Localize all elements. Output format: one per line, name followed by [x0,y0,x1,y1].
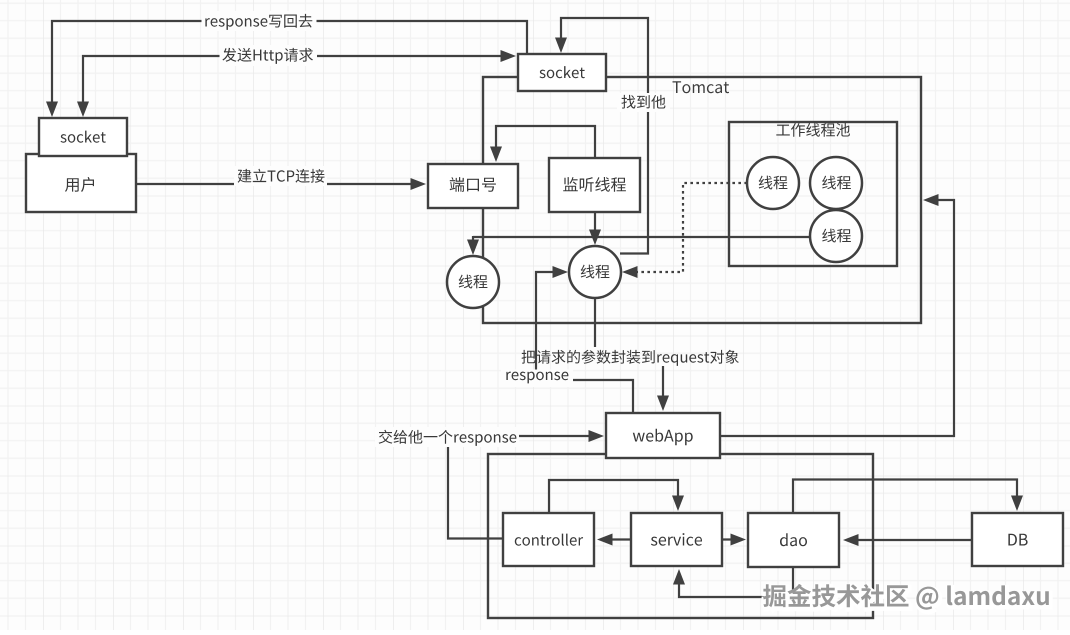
label 工作线程池 [776,123,850,137]
arrowhead into service top [672,496,684,512]
wire give-response label into webApp left [518,435,598,437]
box dao [748,513,839,567]
arrowhead into thread circle B top [589,230,601,246]
wire pool thread 3 to thread circle A junction [473,236,811,238]
label dao [780,533,807,546]
label 线程 pool 2 [822,176,851,190]
label 端口号 [450,177,496,192]
wire webApp right up into Tomcat right edge [720,200,954,436]
label 找到他 [617,93,670,112]
Tomcat container box [483,77,921,323]
wire DB to dao [849,539,972,541]
arrowhead into thread circle A top [467,240,479,256]
webapp inner container box [488,454,873,618]
arrowhead into webApp top [657,396,669,412]
arrowhead find-it into server socket [555,38,567,54]
label controller [515,534,583,546]
arrowhead send http into server socket [501,50,517,62]
wire listening thread down to thread circle B [594,212,596,239]
circle thread A [447,256,499,308]
circle thread B [569,246,621,298]
arrowhead establish TCP into port box [411,178,427,190]
wire controller top to service top [549,480,678,513]
wire find-it: thread circle B up into server socket top [561,18,648,254]
wire response up from label to thread circle B [536,272,562,370]
wire listening thread to port box [496,126,595,158]
label 交给他一个response [375,427,519,447]
wire dao bottom to service bottom [679,567,793,597]
label Tomcat [673,81,730,93]
label 线程 thread circle A [459,275,488,289]
wire establish TCP: user box to port box [137,183,420,185]
label 发送Http请求 [220,45,318,66]
label service [651,533,702,546]
wire thread circle B down to request label [594,298,596,347]
arrowhead into thread circle B left [553,266,569,278]
label 线程 thread circle B [581,265,610,279]
box 端口号 port number [428,164,518,208]
wire pool line junction down to thread circle A [472,236,474,249]
wire service to dao [722,538,740,540]
arrowhead response write-back into user socket [46,102,58,118]
label 线程 pool 3 [822,229,851,243]
arrowhead into dao left [731,534,747,546]
label response [501,370,573,388]
arrowhead into Tomcat right edge [923,194,939,206]
wire send http request: user socket to server socket [83,56,509,112]
arrowhead into service bottom [673,569,685,585]
label 用户 [65,177,94,192]
box service [631,513,722,566]
label 把请求的参数封装到request对象 [522,350,739,366]
wire dao top to DB top [793,480,1017,514]
arrowhead into port box top [490,147,502,163]
arrowhead into DB top [1011,496,1023,512]
wire response label link to webApp top [569,380,633,413]
arrowhead dotted into thread circle B right [622,266,638,278]
dotted wire pool thread 1 to thread circle B [628,183,747,272]
label 线程 pool 1 [759,176,788,190]
box controller [503,513,594,566]
watermark 掘金技术社区 @ lamdaxu [763,584,1050,612]
label 建立TCP连接 [234,166,327,186]
box webApp [606,413,720,458]
circle pool thread 1 [747,157,799,209]
label response写回去 [202,11,317,31]
wire service to controller [603,538,631,540]
circle pool thread 3 [810,210,862,262]
box DB [972,513,1063,566]
box socket (user side) [39,118,127,156]
label socket user side [61,131,106,143]
box 用户 user [26,154,136,212]
arrowhead into webApp left [589,430,605,442]
arrowhead send http into user socket [77,102,89,118]
arrowhead into controller right [597,534,613,546]
arrowhead into dao right [843,534,859,546]
wire request label down into webApp [662,366,664,405]
label socket server side [540,66,585,78]
worker thread pool box 工作线程池 [729,122,897,266]
wire response write-back: server socket top to user socket [52,21,527,112]
box 监听线程 listening thread [549,158,640,212]
label 监听线程 [563,177,626,192]
circle pool thread 2 [810,157,862,209]
label DB [1008,534,1027,546]
wire give-response: controller to webApp [448,445,503,539]
box socket (server side) [518,54,606,91]
label webApp [633,429,693,445]
